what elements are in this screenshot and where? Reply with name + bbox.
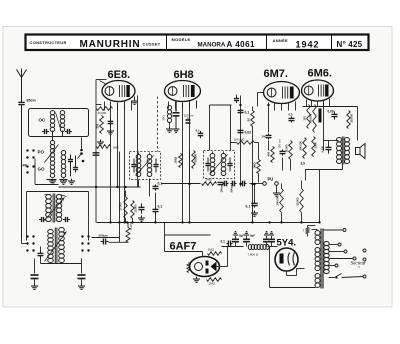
svg-text:25.000: 25.000: [296, 197, 300, 205]
svg-text:0,1: 0,1: [245, 111, 250, 115]
svg-text:50: 50: [247, 118, 251, 122]
svg-text:12.000: 12.000: [285, 144, 289, 152]
svg-text:200.000: 200.000: [276, 196, 280, 206]
svg-text:PO: PO: [38, 150, 45, 155]
svg-text:6M7.: 6M7.: [264, 68, 288, 80]
svg-text:100 cm: 100 cm: [184, 114, 194, 118]
svg-text:0,1: 0,1: [221, 240, 226, 244]
svg-text:30Ω: 30Ω: [162, 115, 166, 120]
svg-text:100 cm: 100 cm: [278, 139, 282, 149]
svg-text:0,5: 0,5: [289, 113, 293, 117]
svg-text:27.000: 27.000: [119, 202, 123, 210]
svg-text:MANORA: MANORA: [198, 42, 226, 49]
svg-text:1942: 1942: [296, 40, 320, 50]
svg-text:FB: FB: [23, 164, 28, 168]
svg-text:0,02: 0,02: [245, 131, 252, 135]
svg-text:500cm: 500cm: [99, 234, 109, 238]
svg-text:8µF: 8µF: [250, 234, 255, 238]
svg-text:50.000: 50.000: [309, 114, 313, 123]
svg-text:0,09: 0,09: [328, 110, 334, 114]
svg-text:3,9: 3,9: [301, 162, 306, 166]
svg-text:100.000: 100.000: [234, 138, 245, 142]
svg-text:250: 250: [96, 123, 100, 128]
svg-text:~: ~: [358, 265, 361, 270]
svg-text:400: 400: [267, 151, 271, 156]
svg-text:5Y4.: 5Y4.: [277, 238, 297, 249]
svg-text:10.000: 10.000: [134, 204, 138, 212]
svg-text:5.000: 5.000: [314, 141, 318, 148]
svg-text:1MΩ: 1MΩ: [206, 178, 213, 182]
svg-text:85cm: 85cm: [27, 99, 36, 103]
svg-text:15.000: 15.000: [129, 222, 133, 230]
svg-text:1%: 1%: [262, 135, 267, 139]
svg-text:1MΩ: 1MΩ: [253, 162, 257, 169]
svg-text:0,1: 0,1: [246, 205, 251, 209]
svg-text:6H8: 6H8: [174, 69, 194, 81]
svg-text:500cm: 500cm: [230, 184, 234, 193]
svg-text:0,1: 0,1: [196, 129, 201, 133]
svg-text:20.000: 20.000: [350, 114, 354, 123]
svg-text:5.000: 5.000: [321, 145, 325, 152]
svg-text:50.000: 50.000: [194, 154, 198, 163]
svg-text:N° 425: N° 425: [337, 40, 363, 49]
svg-text:MODÈLE: MODÈLE: [172, 37, 191, 42]
svg-text:A 4061: A 4061: [227, 40, 256, 49]
svg-text:0,1: 0,1: [158, 205, 163, 209]
svg-text:GO: GO: [38, 167, 46, 172]
svg-text:PU: PU: [268, 177, 274, 182]
svg-text:500.000: 500.000: [299, 141, 303, 151]
svg-text:1MΩ: 1MΩ: [209, 282, 216, 286]
svg-text:8µF: 8µF: [239, 234, 244, 238]
svg-text:1MΩ: 1MΩ: [208, 248, 215, 252]
svg-text:6AF7: 6AF7: [170, 241, 197, 253]
svg-text:110: 110: [303, 116, 307, 121]
svg-text:100cm: 100cm: [220, 184, 224, 193]
svg-text:1MΩ: 1MΩ: [113, 146, 119, 150]
svg-text:20.000: 20.000: [98, 111, 107, 115]
svg-text:1MΩ: 1MΩ: [174, 156, 178, 163]
svg-text:MANURHIN: MANURHIN: [80, 39, 141, 50]
svg-text:OC: OC: [39, 118, 47, 123]
svg-text:CONSTRUCTEUR: CONSTRUCTEUR: [30, 40, 67, 45]
svg-text:7.800 Ω: 7.800 Ω: [248, 253, 259, 257]
svg-text:6M6.: 6M6.: [308, 68, 332, 80]
svg-text:T: T: [303, 229, 305, 233]
svg-text:CUSSET: CUSSET: [143, 42, 161, 47]
svg-text:ANNÉE: ANNÉE: [273, 38, 289, 43]
svg-text:6E8.: 6E8.: [108, 69, 131, 81]
